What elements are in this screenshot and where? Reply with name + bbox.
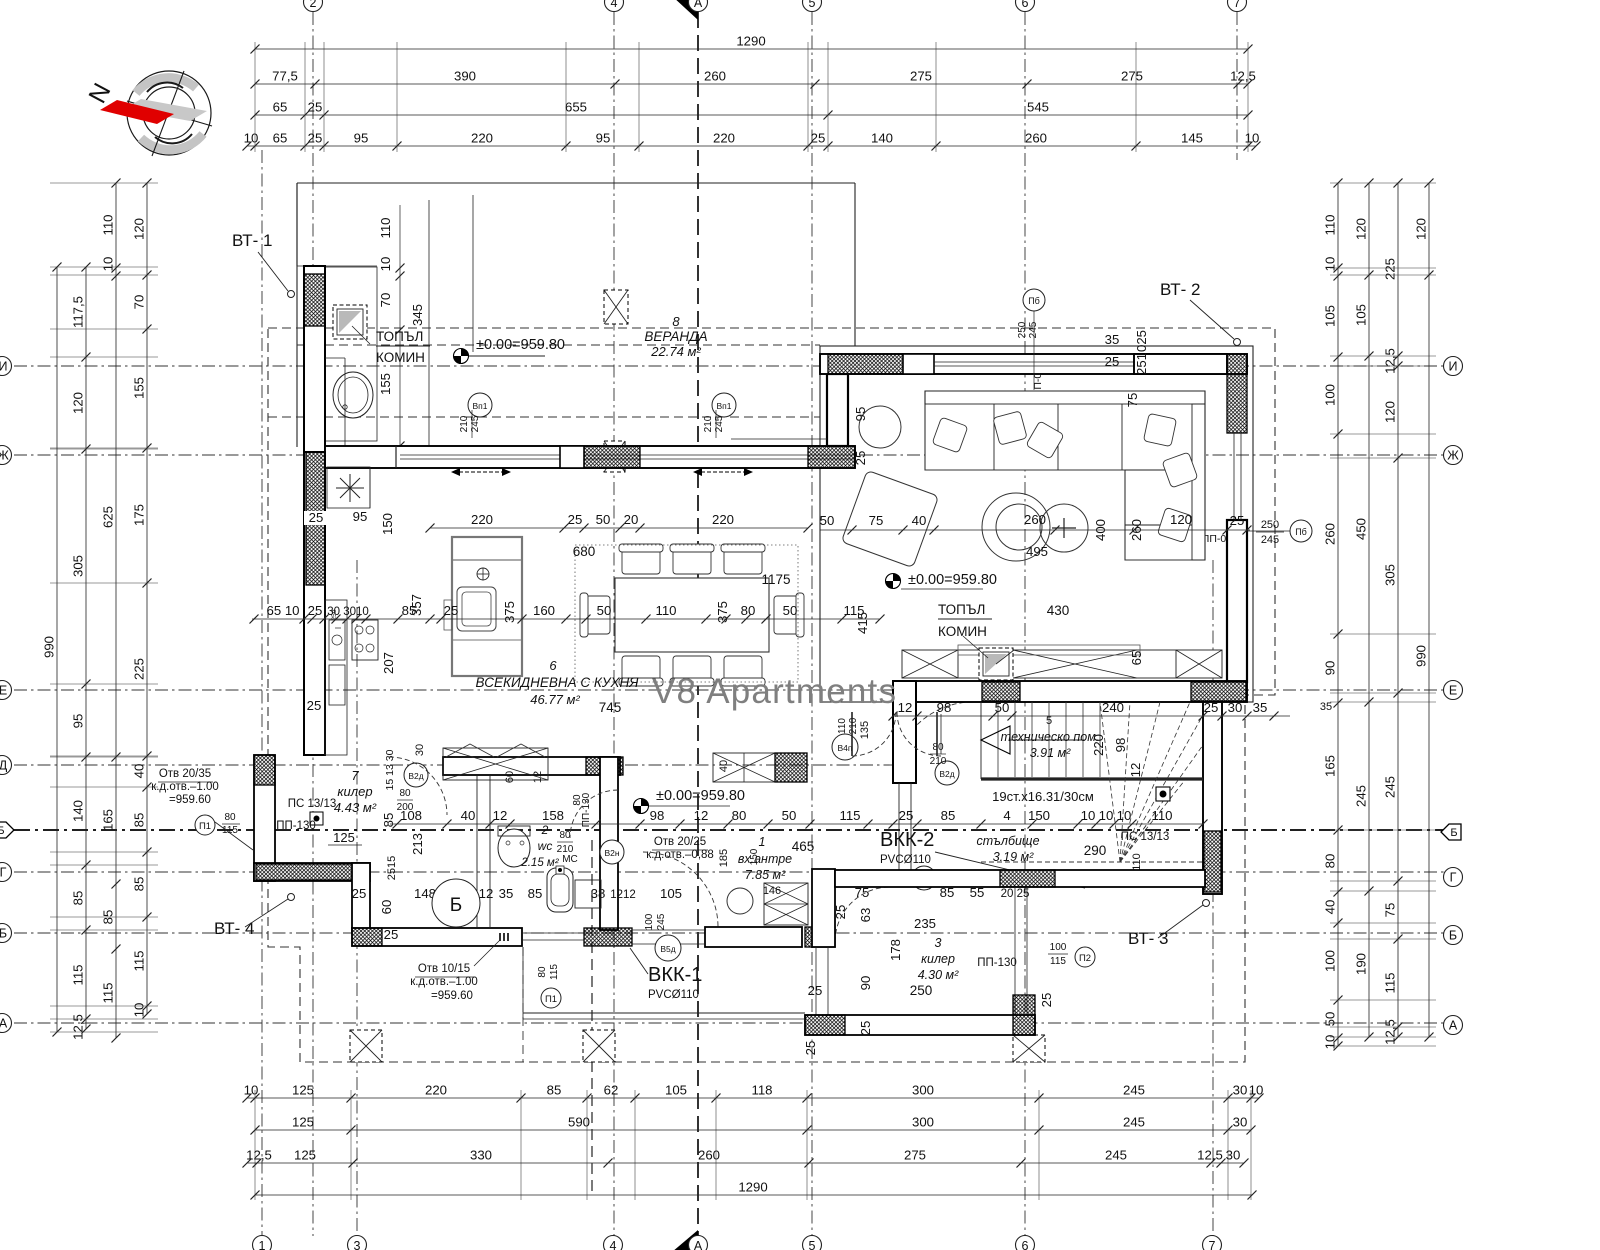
svg-text:60: 60 xyxy=(379,900,394,915)
svg-text:290: 290 xyxy=(1084,843,1107,858)
svg-text:225: 225 xyxy=(132,658,147,680)
svg-text:100: 100 xyxy=(1050,942,1067,953)
svg-text:10: 10 xyxy=(1245,131,1260,146)
svg-text:110: 110 xyxy=(1131,853,1143,871)
svg-text:ВСЕКИДНЕВНА С КУХНЯ: ВСЕКИДНЕВНА С КУХНЯ xyxy=(476,675,640,690)
svg-text:Б: Б xyxy=(450,895,462,916)
svg-text:килер: килер xyxy=(337,784,372,799)
svg-text:50: 50 xyxy=(1323,1012,1338,1027)
svg-text:30 3010: 30 3010 xyxy=(327,606,369,618)
svg-text:PVCØ110: PVCØ110 xyxy=(648,989,699,1001)
svg-text:ВТ- 3: ВТ- 3 xyxy=(1128,929,1168,948)
svg-text:25: 25 xyxy=(811,131,826,146)
svg-text:115: 115 xyxy=(1383,972,1398,993)
svg-text:П1: П1 xyxy=(545,994,557,1005)
svg-text:КОМИН: КОМИН xyxy=(938,624,987,639)
svg-text:375: 375 xyxy=(502,601,517,623)
svg-text:210: 210 xyxy=(703,415,714,432)
svg-text:7: 7 xyxy=(1209,1239,1216,1250)
svg-text:245: 245 xyxy=(1383,776,1398,798)
svg-text:125: 125 xyxy=(292,1083,314,1098)
svg-text:70: 70 xyxy=(132,295,147,310)
svg-text:98: 98 xyxy=(650,808,665,823)
svg-text:38: 38 xyxy=(591,886,606,901)
svg-text:4.43 м²: 4.43 м² xyxy=(334,800,377,815)
svg-text:±0.00=959.80: ±0.00=959.80 xyxy=(476,337,565,353)
svg-text:85: 85 xyxy=(547,1083,562,1098)
svg-text:235: 235 xyxy=(914,916,936,931)
svg-text:12,5: 12,5 xyxy=(246,1148,272,1163)
svg-text:220: 220 xyxy=(425,1083,447,1098)
svg-text:150: 150 xyxy=(1028,808,1050,823)
svg-text:Б: Б xyxy=(0,825,5,837)
svg-text:25: 25 xyxy=(808,983,823,998)
svg-text:110: 110 xyxy=(1151,808,1172,823)
svg-text:300: 300 xyxy=(912,1083,934,1098)
svg-text:165: 165 xyxy=(1323,755,1338,777)
svg-text:85: 85 xyxy=(71,891,86,906)
svg-text:155: 155 xyxy=(132,377,147,399)
svg-text:250: 250 xyxy=(1261,519,1279,531)
svg-text:80: 80 xyxy=(399,788,411,799)
svg-text:Ж: Ж xyxy=(0,449,9,463)
svg-text:5: 5 xyxy=(1046,715,1052,727)
svg-text:1290: 1290 xyxy=(738,1180,767,1195)
svg-text:55: 55 xyxy=(970,885,985,900)
svg-text:В2д: В2д xyxy=(408,771,423,781)
svg-text:4: 4 xyxy=(1003,808,1010,823)
svg-text:120: 120 xyxy=(71,392,86,414)
svg-text:В2н: В2н xyxy=(604,848,619,858)
svg-text:В2д: В2д xyxy=(939,769,954,779)
svg-text:5: 5 xyxy=(809,0,816,10)
svg-text:к.д.отв.–1.00: к.д.отв.–1.00 xyxy=(151,781,219,793)
svg-text:158: 158 xyxy=(542,808,564,823)
svg-text:техническо пом.: техническо пом. xyxy=(1001,730,1100,744)
svg-text:165: 165 xyxy=(101,809,116,831)
svg-text:12,5: 12,5 xyxy=(1383,1019,1398,1045)
svg-text:30: 30 xyxy=(1233,1115,1248,1130)
svg-text:415: 415 xyxy=(855,612,870,634)
svg-text:Е: Е xyxy=(0,684,7,698)
svg-text:120: 120 xyxy=(132,218,147,240)
svg-text:3.19 м²: 3.19 м² xyxy=(993,850,1034,864)
svg-text:105: 105 xyxy=(1323,305,1338,327)
svg-text:275: 275 xyxy=(910,69,932,84)
svg-text:стълбище: стълбище xyxy=(976,834,1039,848)
svg-text:213: 213 xyxy=(410,833,425,855)
svg-text:30: 30 xyxy=(1228,700,1243,715)
svg-text:375: 375 xyxy=(715,601,730,623)
svg-text:220: 220 xyxy=(471,512,493,527)
svg-text:260: 260 xyxy=(698,1148,720,1163)
svg-text:590: 590 xyxy=(568,1115,590,1130)
svg-text:220: 220 xyxy=(1091,734,1106,756)
svg-text:Б: Б xyxy=(0,927,7,941)
svg-text:745: 745 xyxy=(599,700,622,715)
svg-text:Б: Б xyxy=(1449,929,1457,943)
svg-text:4: 4 xyxy=(610,1239,617,1250)
svg-text:П1: П1 xyxy=(199,821,211,832)
svg-text:1: 1 xyxy=(259,1239,266,1250)
svg-text:245: 245 xyxy=(1105,1148,1127,1163)
svg-text:Е: Е xyxy=(1449,684,1457,698)
svg-text:50: 50 xyxy=(597,603,612,618)
svg-text:ВТ- 4: ВТ- 4 xyxy=(214,919,254,938)
svg-text:110: 110 xyxy=(1323,214,1338,235)
svg-text:70: 70 xyxy=(378,293,393,308)
svg-text:5: 5 xyxy=(809,1239,816,1250)
svg-text:10: 10 xyxy=(1117,808,1132,823)
svg-text:330: 330 xyxy=(470,1148,492,1163)
svg-text:115: 115 xyxy=(839,808,860,823)
svg-text:3: 3 xyxy=(935,936,942,950)
svg-text:10: 10 xyxy=(378,257,393,272)
svg-text:к.д.отв.–0,88: к.д.отв.–0,88 xyxy=(646,849,714,861)
svg-text:25: 25 xyxy=(384,927,399,942)
svg-text:25: 25 xyxy=(803,1041,818,1056)
svg-text:8: 8 xyxy=(672,314,680,329)
svg-text:120: 120 xyxy=(1414,218,1429,240)
svg-text:357: 357 xyxy=(409,594,424,616)
svg-text:90: 90 xyxy=(858,976,873,991)
svg-text:430: 430 xyxy=(1047,603,1070,618)
svg-text:6: 6 xyxy=(1022,0,1029,10)
svg-text:12: 12 xyxy=(532,771,544,783)
svg-text:Г: Г xyxy=(0,866,7,880)
svg-text:225: 225 xyxy=(1383,258,1398,280)
svg-text:PVCØ110: PVCØ110 xyxy=(880,854,931,866)
svg-text:V8 Apartments: V8 Apartments xyxy=(652,672,897,711)
svg-text:110: 110 xyxy=(378,217,393,238)
svg-text:25: 25 xyxy=(308,100,323,115)
svg-text:260: 260 xyxy=(1024,512,1046,527)
svg-text:105: 105 xyxy=(665,1083,687,1098)
svg-text:125: 125 xyxy=(333,830,355,845)
svg-text:Пб: Пб xyxy=(1028,296,1040,306)
svg-text:110: 110 xyxy=(101,214,116,235)
svg-text:210: 210 xyxy=(848,717,859,734)
svg-text:25: 25 xyxy=(352,886,367,901)
svg-text:625: 625 xyxy=(101,506,116,528)
svg-text:10: 10 xyxy=(244,131,259,146)
svg-text:25: 25 xyxy=(444,603,459,618)
svg-text:345: 345 xyxy=(410,304,425,326)
svg-text:545: 545 xyxy=(1027,100,1049,115)
svg-text:80: 80 xyxy=(224,812,236,823)
svg-text:12: 12 xyxy=(493,808,508,823)
svg-text:12,5: 12,5 xyxy=(1383,348,1398,374)
svg-text:П2: П2 xyxy=(1079,953,1091,964)
svg-text:260: 260 xyxy=(1025,131,1047,146)
svg-text:wc: wc xyxy=(538,839,553,853)
svg-text:±0.00=959.80: ±0.00=959.80 xyxy=(908,572,997,588)
svg-text:140: 140 xyxy=(71,800,86,822)
svg-text:135: 135 xyxy=(859,721,871,739)
svg-text:245: 245 xyxy=(656,913,667,930)
svg-text:140: 140 xyxy=(871,131,893,146)
svg-text:80: 80 xyxy=(732,808,747,823)
svg-text:ТОПЪЛ: ТОПЪЛ xyxy=(376,329,423,344)
svg-text:35: 35 xyxy=(1253,700,1268,715)
svg-text:3: 3 xyxy=(354,1239,361,1250)
svg-text:95: 95 xyxy=(353,509,368,524)
svg-text:110: 110 xyxy=(655,603,676,618)
svg-text:85: 85 xyxy=(381,813,396,828)
svg-text:ПС 13/13: ПС 13/13 xyxy=(288,798,337,810)
svg-text:450: 450 xyxy=(1354,518,1369,540)
svg-text:50: 50 xyxy=(596,512,611,527)
svg-text:35: 35 xyxy=(1320,701,1332,713)
svg-text:1212: 1212 xyxy=(610,889,636,901)
svg-text:120: 120 xyxy=(1170,512,1192,527)
svg-text:Вп1: Вп1 xyxy=(717,401,732,411)
svg-text:12: 12 xyxy=(898,700,913,715)
svg-text:±0.00=959.80: ±0.00=959.80 xyxy=(656,788,745,804)
svg-text:655: 655 xyxy=(565,100,587,115)
svg-text:990: 990 xyxy=(42,636,57,658)
svg-text:ТОПЪЛ: ТОПЪЛ xyxy=(938,602,985,617)
svg-text:75: 75 xyxy=(1383,903,1398,918)
svg-text:115: 115 xyxy=(132,950,147,971)
svg-text:25: 25 xyxy=(1105,354,1120,369)
svg-text:80: 80 xyxy=(1323,854,1338,869)
svg-text:110: 110 xyxy=(837,718,848,734)
svg-text:95: 95 xyxy=(596,131,611,146)
svg-text:A: A xyxy=(694,1239,703,1250)
svg-text:120: 120 xyxy=(1354,218,1369,240)
svg-text:125: 125 xyxy=(294,1148,316,1163)
svg-text:85: 85 xyxy=(941,808,956,823)
svg-text:025: 025 xyxy=(1134,330,1149,352)
svg-text:178: 178 xyxy=(888,939,903,961)
svg-text:ВТ- 1: ВТ- 1 xyxy=(232,231,272,250)
svg-text:10: 10 xyxy=(1323,257,1338,272)
svg-text:115: 115 xyxy=(101,982,116,1003)
svg-text:3.91 м²: 3.91 м² xyxy=(1030,746,1071,760)
svg-text:85: 85 xyxy=(132,877,147,892)
svg-text:25: 25 xyxy=(308,131,323,146)
svg-text:ВКК-2: ВКК-2 xyxy=(880,829,934,851)
svg-text:80: 80 xyxy=(741,603,756,618)
svg-text:175: 175 xyxy=(132,504,147,526)
svg-text:25: 25 xyxy=(853,451,868,466)
svg-text:12: 12 xyxy=(694,808,709,823)
svg-text:=959.60: =959.60 xyxy=(431,990,473,1002)
svg-text:2: 2 xyxy=(310,0,317,10)
svg-text:12: 12 xyxy=(479,886,494,901)
svg-text:145: 145 xyxy=(1181,131,1203,146)
svg-text:85: 85 xyxy=(132,813,147,828)
svg-text:220: 220 xyxy=(713,131,735,146)
svg-text:495: 495 xyxy=(1026,544,1048,559)
svg-text:115: 115 xyxy=(222,825,238,836)
svg-text:35: 35 xyxy=(499,886,514,901)
svg-text:80: 80 xyxy=(559,830,571,841)
svg-text:ПС 13/13: ПС 13/13 xyxy=(1121,831,1170,843)
svg-text:Б: Б xyxy=(1450,827,1457,839)
svg-text:50: 50 xyxy=(783,603,798,618)
svg-text:12,5: 12,5 xyxy=(71,1014,86,1040)
svg-text:150: 150 xyxy=(380,513,395,535)
svg-text:A: A xyxy=(694,0,703,10)
svg-text:И: И xyxy=(0,360,7,374)
svg-text:25: 25 xyxy=(568,512,583,527)
svg-text:240: 240 xyxy=(1102,700,1124,715)
svg-text:12,5: 12,5 xyxy=(1230,69,1256,84)
svg-text:40: 40 xyxy=(132,764,147,779)
svg-text:=959.60: =959.60 xyxy=(169,794,211,806)
svg-text:46.77 м²: 46.77 м² xyxy=(530,692,580,707)
svg-text:40: 40 xyxy=(718,760,730,772)
svg-text:95: 95 xyxy=(853,407,868,422)
svg-text:И: И xyxy=(1449,360,1458,374)
svg-text:305: 305 xyxy=(1383,564,1398,586)
svg-text:680: 680 xyxy=(573,544,596,559)
svg-text:990: 990 xyxy=(1414,645,1429,667)
svg-text:25: 25 xyxy=(899,808,914,823)
svg-text:Вп1: Вп1 xyxy=(473,401,488,411)
svg-text:62: 62 xyxy=(604,1083,619,1098)
svg-text:6: 6 xyxy=(549,658,557,673)
svg-text:60: 60 xyxy=(504,771,516,783)
svg-text:100: 100 xyxy=(1323,384,1338,406)
svg-text:80: 80 xyxy=(932,742,944,753)
svg-text:85: 85 xyxy=(940,885,955,900)
svg-text:185: 185 xyxy=(718,849,730,867)
svg-text:210: 210 xyxy=(557,844,574,855)
svg-text:15 13 30: 15 13 30 xyxy=(384,749,396,790)
svg-text:207: 207 xyxy=(381,652,396,674)
svg-text:Ж: Ж xyxy=(1447,449,1459,463)
svg-text:1175: 1175 xyxy=(761,572,790,587)
svg-text:10: 10 xyxy=(1099,808,1114,823)
svg-text:220: 220 xyxy=(471,131,493,146)
svg-text:25: 25 xyxy=(309,510,324,525)
svg-text:245: 245 xyxy=(1261,534,1279,546)
svg-text:75: 75 xyxy=(869,513,884,528)
svg-text:25: 25 xyxy=(1039,993,1054,1008)
svg-text:275: 275 xyxy=(1121,69,1143,84)
svg-text:118: 118 xyxy=(751,1083,772,1098)
svg-text:ПП-130: ПП-130 xyxy=(276,820,316,832)
svg-text:Отв 20/35: Отв 20/35 xyxy=(159,768,211,780)
svg-text:12,5: 12,5 xyxy=(1197,1148,1223,1163)
svg-text:30: 30 xyxy=(1233,1083,1248,1098)
svg-text:Пб: Пб xyxy=(1295,527,1307,537)
svg-text:2.15 м²: 2.15 м² xyxy=(520,857,559,869)
svg-text:Г: Г xyxy=(1450,871,1457,885)
svg-text:ВКК-1: ВКК-1 xyxy=(648,964,702,986)
svg-text:210: 210 xyxy=(459,415,470,432)
svg-text:465: 465 xyxy=(792,839,815,854)
svg-text:251: 251 xyxy=(1134,353,1149,375)
svg-text:35: 35 xyxy=(1105,332,1120,347)
svg-text:117,5: 117,5 xyxy=(71,296,86,328)
svg-text:ВЕРАНДА: ВЕРАНДА xyxy=(644,329,707,344)
svg-text:4: 4 xyxy=(611,0,618,10)
svg-text:220: 220 xyxy=(712,512,734,527)
svg-text:245: 245 xyxy=(1354,785,1369,807)
svg-text:85: 85 xyxy=(528,886,543,901)
svg-text:98: 98 xyxy=(1113,738,1128,753)
svg-text:ВТ- 2: ВТ- 2 xyxy=(1160,280,1200,299)
svg-text:65: 65 xyxy=(1129,651,1144,666)
svg-text:25: 25 xyxy=(833,905,848,920)
svg-text:50: 50 xyxy=(820,513,835,528)
svg-text:95: 95 xyxy=(71,714,86,729)
svg-text:80: 80 xyxy=(537,966,548,978)
svg-text:40: 40 xyxy=(461,808,476,823)
svg-text:146: 146 xyxy=(763,885,781,897)
svg-text:245: 245 xyxy=(1028,321,1039,338)
svg-text:250: 250 xyxy=(910,983,933,998)
svg-text:115: 115 xyxy=(71,964,86,985)
svg-text:А: А xyxy=(1449,1019,1458,1033)
svg-text:килер: килер xyxy=(921,952,955,966)
svg-text:В5д: В5д xyxy=(660,944,675,954)
svg-text:25: 25 xyxy=(858,1021,873,1036)
svg-text:390: 390 xyxy=(454,69,476,84)
svg-text:275: 275 xyxy=(904,1148,926,1163)
svg-text:100: 100 xyxy=(1323,950,1338,972)
svg-text:Отв 20/25: Отв 20/25 xyxy=(654,836,706,848)
svg-text:65: 65 xyxy=(273,100,288,115)
svg-text:95: 95 xyxy=(354,131,369,146)
svg-text:4.30 м²: 4.30 м² xyxy=(918,968,959,982)
svg-text:90: 90 xyxy=(1323,661,1338,676)
svg-text:ПП-130: ПП-130 xyxy=(581,792,592,827)
svg-text:7: 7 xyxy=(351,768,359,783)
svg-text:40: 40 xyxy=(1323,900,1338,915)
svg-text:25: 25 xyxy=(1230,513,1245,528)
svg-text:160: 160 xyxy=(533,603,555,618)
svg-text:вх.антре: вх.антре xyxy=(738,852,792,866)
svg-text:20 25: 20 25 xyxy=(1001,888,1030,900)
svg-text:125: 125 xyxy=(292,1115,314,1130)
svg-text:1290: 1290 xyxy=(736,34,765,49)
svg-text:75: 75 xyxy=(1125,393,1140,408)
svg-text:КОМИН: КОМИН xyxy=(376,350,425,365)
svg-text:В4п: В4п xyxy=(838,743,853,753)
svg-text:75: 75 xyxy=(855,885,870,900)
svg-text:105: 105 xyxy=(1354,304,1369,326)
svg-text:65 10: 65 10 xyxy=(266,603,299,618)
svg-text:40: 40 xyxy=(912,513,927,528)
svg-text:115: 115 xyxy=(549,964,560,980)
svg-text:245: 245 xyxy=(1123,1083,1145,1098)
svg-text:7: 7 xyxy=(1234,0,1241,10)
svg-text:63: 63 xyxy=(858,908,873,923)
svg-text:155: 155 xyxy=(378,373,393,395)
svg-text:к.д.отв.–1.00: к.д.отв.–1.00 xyxy=(410,976,478,988)
svg-text:10: 10 xyxy=(101,257,116,272)
svg-text:65: 65 xyxy=(273,131,288,146)
svg-text:100: 100 xyxy=(644,913,655,930)
svg-text:10: 10 xyxy=(244,1083,259,1098)
svg-text:30: 30 xyxy=(414,744,426,756)
svg-text:А: А xyxy=(0,1017,8,1031)
svg-text:260: 260 xyxy=(704,69,726,84)
svg-text:6: 6 xyxy=(1022,1239,1029,1250)
svg-text:Отв 10/15: Отв 10/15 xyxy=(418,963,470,975)
svg-text:10: 10 xyxy=(1081,808,1096,823)
svg-text:МС: МС xyxy=(562,854,578,865)
svg-text:50: 50 xyxy=(782,808,797,823)
svg-text:77,5: 77,5 xyxy=(272,69,298,84)
svg-text:ПП-130: ПП-130 xyxy=(977,957,1017,969)
svg-text:10: 10 xyxy=(132,1003,147,1018)
